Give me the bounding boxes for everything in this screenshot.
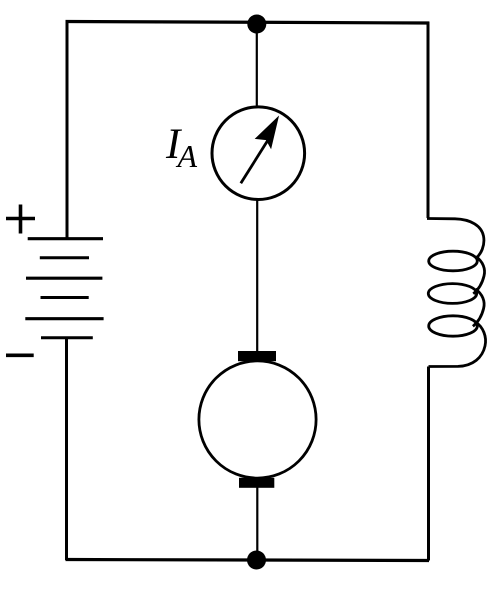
- inductor L1 bottom connector: [429, 322, 486, 367]
- battery B1 minus label: [6, 353, 34, 357]
- wire middle between ammeter and motor: [256, 200, 258, 353]
- wire bottom horizontal: [66, 560, 430, 561]
- inductor L1 loop 3: [429, 316, 478, 336]
- node junction dot bottom: [247, 551, 266, 570]
- battery B1 plate 6 short: [41, 336, 93, 339]
- wire right vertical lower: [427, 367, 430, 561]
- ammeter M1 circle: [212, 107, 305, 200]
- node junction dot top: [247, 15, 266, 34]
- wire left vertical upper: [66, 20, 69, 239]
- battery B1 plus label: [6, 205, 35, 234]
- ammeter M1 needle head: [256, 117, 278, 148]
- battery B1 plate 4 short: [41, 296, 89, 299]
- ammeter M1 needle shaft: [241, 140, 268, 183]
- inductor L1 loop 1: [429, 251, 478, 271]
- svg-text:A: A: [176, 138, 198, 174]
- wire middle lower: [256, 487, 258, 560]
- inductor L1 connector 2-3: [473, 289, 484, 326]
- wire middle upper: [256, 24, 258, 108]
- battery B1 plate 3 long: [26, 277, 102, 280]
- inductor L1 loop 2: [428, 284, 476, 304]
- inductor L1 connector 1-2: [473, 257, 484, 294]
- wire right vertical upper: [427, 22, 430, 219]
- battery B1 plate 1 long: [28, 237, 103, 240]
- motor M2 brush top: [238, 351, 276, 361]
- motor M2 brush bottom: [239, 478, 274, 488]
- battery B1 plate 5 long: [25, 317, 103, 320]
- inductor L1 top connector: [427, 219, 484, 259]
- wire left vertical lower: [65, 338, 68, 560]
- wire top horizontal: [66, 22, 430, 24]
- battery B1 plate 2 short: [40, 256, 89, 259]
- motor M2 circle: [199, 361, 316, 478]
